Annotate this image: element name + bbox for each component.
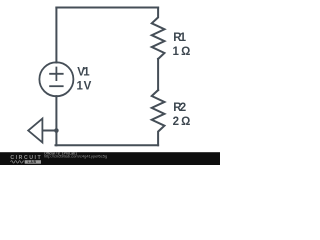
- svg-text:R1: R1: [173, 32, 186, 44]
- CircuitLab logo wave: [11, 161, 24, 164]
- CircuitLab logo LAB: [25, 160, 41, 164]
- svg-text:1: 1: [173, 46, 180, 58]
- svg-text:Ω: Ω: [181, 116, 190, 128]
- node junction dot: [54, 128, 59, 133]
- svg-text:V1: V1: [77, 66, 90, 78]
- resistor R2: [152, 90, 165, 145]
- V1 plus sign: [50, 68, 63, 81]
- wire left lower: [55, 96, 57, 145]
- ground triangle: [28, 119, 42, 143]
- wire bottom: [56, 144, 159, 146]
- wire top: [56, 7, 158, 9]
- svg-text:1: 1: [77, 80, 84, 92]
- ground stub wire: [43, 130, 57, 132]
- svg-text:2: 2: [173, 116, 179, 128]
- resistor R1: [152, 8, 165, 59]
- svg-text:R2: R2: [173, 102, 186, 114]
- svg-text:Ω: Ω: [181, 46, 190, 58]
- voltage source V1 circle: [39, 62, 73, 96]
- footer watermark bar: [0, 152, 220, 165]
- V1 minus sign: [50, 85, 63, 87]
- svg-text:http://circuitlab.com/c4g41ype: http://circuitlab.com/c4g41ypef6c5g: [44, 155, 107, 159]
- svg-text:V: V: [84, 80, 92, 92]
- svg-text:LAB: LAB: [28, 160, 37, 164]
- wire left upper: [55, 8, 57, 63]
- wire right middle: [157, 59, 159, 90]
